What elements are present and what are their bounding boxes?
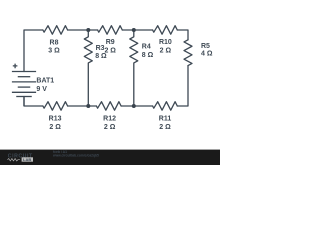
wire R13 to battery bottom (24, 97, 43, 107)
resistor R10 (153, 26, 178, 35)
wire top-left from battery to R8 (24, 30, 43, 72)
label R12 (103, 116, 116, 132)
label R11 (159, 116, 172, 132)
svg-text:2 Ω: 2 Ω (160, 47, 172, 54)
wire R12 to node C to R13 (68, 105, 97, 107)
node D (132, 104, 136, 108)
battery BAT1 (12, 64, 36, 106)
svg-text:2 Ω: 2 Ω (159, 124, 171, 131)
label R8 (48, 39, 60, 54)
svg-text:R4: R4 (142, 43, 151, 50)
svg-text:R12: R12 (103, 116, 116, 123)
plus sign (13, 64, 18, 69)
label R13 (49, 116, 62, 132)
wire R11 to node D (121, 105, 153, 107)
svg-text:4 Ω: 4 Ω (201, 50, 213, 57)
svg-text:8 Ω: 8 Ω (142, 52, 154, 59)
node A (86, 28, 90, 32)
wire R8 to node A (68, 29, 98, 31)
resistor R9 (98, 26, 123, 35)
wire R9 to node B to R10 (122, 29, 152, 31)
svg-text:R13: R13 (49, 116, 62, 123)
label R4 (142, 43, 154, 59)
CircuitLab logo (8, 153, 34, 162)
wire R10 to top-right corner (177, 30, 188, 40)
svg-text:www.circuitlab.com/c/ca2qb5: www.circuitlab.com/c/ca2qb5 (52, 153, 99, 157)
svg-text:R8: R8 (50, 39, 59, 46)
svg-text:R10: R10 (159, 39, 172, 46)
wire right rail down (177, 66, 188, 106)
svg-text:R5: R5 (201, 43, 210, 50)
svg-text:3 Ω: 3 Ω (48, 48, 60, 55)
svg-text:2 Ω: 2 Ω (49, 124, 61, 131)
label R5 (201, 43, 213, 57)
resistor R3 (84, 30, 92, 106)
resistor R5 (184, 40, 192, 66)
svg-text:2 Ω: 2 Ω (104, 124, 116, 131)
label BAT1 (36, 78, 54, 94)
label R3 (95, 45, 107, 60)
svg-text:LAB: LAB (23, 157, 31, 162)
resistor R11 (153, 102, 178, 111)
label R10 (159, 39, 172, 54)
svg-text:R3: R3 (96, 45, 105, 52)
resistor R4 (130, 30, 138, 106)
svg-text:R9: R9 (106, 39, 115, 46)
node C (86, 104, 90, 108)
resistor R12 (96, 102, 121, 111)
node B (132, 28, 136, 32)
svg-text:R11: R11 (159, 116, 172, 123)
resistor R8 (43, 26, 68, 35)
svg-text:8 Ω: 8 Ω (95, 53, 107, 60)
resistor R13 (43, 102, 68, 111)
svg-text:BAT1: BAT1 (36, 78, 54, 85)
label R9 (104, 39, 116, 54)
footer watermark bar (0, 150, 220, 165)
svg-text:9 V: 9 V (36, 86, 47, 93)
